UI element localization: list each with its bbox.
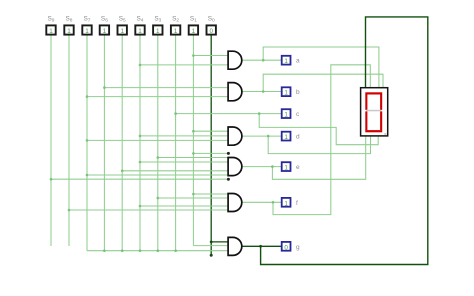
wire S6 to U2 input [104,87,228,89]
junction S4 row e3 [139,161,142,164]
wire S1 to U5 input [193,193,228,195]
wire S2 vertical [175,35,177,251]
junction S6 bottom [103,249,106,252]
wire U5 output to pin f [242,201,281,203]
junction net c branch [258,112,261,115]
svg-text:1: 1 [284,200,288,207]
input pin S7 [82,16,91,36]
wire S7 to U3 input [87,139,228,141]
input pin S1 [189,16,198,36]
junction net f branch [272,201,275,204]
wire net a to display [263,47,379,88]
junction net e branch [271,165,274,168]
input pin S2 [171,16,180,36]
input pin S0 [207,16,216,36]
wire S9 to U4 lower stub [51,178,228,180]
junction S3 row e2 [157,156,160,159]
wire net g to display dark [261,17,428,265]
junction U4 lower stub dot [227,178,230,181]
and-gate U6 [228,237,242,255]
wire S5 to U4 input [122,170,228,172]
junction net g branch dark [259,245,262,248]
output pin a [282,56,300,65]
output pin e [282,162,300,171]
wire S7 to U4 input [87,174,228,176]
input pin S6 [100,16,109,36]
output pin g [282,242,300,251]
junction S1 row d [192,130,195,133]
output pin d [282,132,300,141]
svg-text:e: e [296,164,300,171]
wire S6 vertical [103,35,105,251]
wire S1 to U3 input [193,130,228,132]
junction S3 row f2 [157,197,160,200]
junction S9 row e6 [50,178,53,181]
wire S3 to U5 input [158,197,229,199]
wire S0 vertical dark [210,35,212,256]
input pin S9 [46,16,55,36]
wire S9 vertical [50,35,52,246]
and-gate U4 [228,158,242,176]
wire S3 to U4 input [158,157,229,159]
input pin S3 [153,16,162,36]
wire U4 output to pin e [242,166,281,168]
svg-text:0: 0 [284,244,288,251]
svg-text:1: 1 [284,112,288,119]
wire S2 to pin c [176,113,282,115]
svg-text:g: g [296,244,300,251]
wire S8 vertical [68,35,70,246]
wire net d to display [268,136,370,154]
input pin S4 [135,16,144,36]
output pin b [282,87,300,96]
wire S4 to U1 input [140,64,228,66]
svg-text:1: 1 [284,90,288,97]
seven-segment display U7 [361,88,388,136]
junction S7 row d [86,139,89,142]
junction S2 bottom [174,249,177,252]
junction U4 upper stub dot [227,152,230,155]
wire S1 to U1 input [193,55,228,57]
wire S7 vertical [86,35,88,251]
svg-text:a: a [296,58,300,65]
wire S4 to U3 input [140,135,228,137]
junction S1 row a [192,54,195,57]
wire S5 vertical [121,35,123,251]
wire U6 output to pin g dark [242,245,281,247]
svg-text:1: 1 [67,28,71,35]
wire S4 vertical [139,35,141,251]
svg-text:0: 0 [209,28,213,35]
junction S4 row f3 [139,205,142,208]
svg-text:1: 1 [120,28,124,35]
wire S7 to U6 input [87,250,228,252]
wire S1 vertical [192,35,194,246]
wire U2 output to pin b [242,91,281,93]
wire S0 to U6 input dark [211,241,228,243]
wire S3 vertical [157,35,159,251]
svg-text:1: 1 [138,28,142,35]
wire S4 to U5 input [140,205,228,207]
junction S0 gate branch dark [210,241,213,244]
and-gate U5 [228,194,242,212]
junction S8 row f4 [68,209,71,212]
wire net f to display [273,65,370,215]
svg-text:1: 1 [284,134,288,141]
svg-text:1: 1 [156,28,160,35]
output pin f [282,198,298,207]
input pin S8 [64,16,73,36]
output pin c [282,109,300,118]
input pin S5 [118,16,127,36]
wire net e to display [272,136,365,179]
junction S2 row c [174,112,177,115]
svg-text:b: b [296,89,300,96]
wire S1 to U4 upper stub [193,152,228,154]
junction net a branch [262,59,265,62]
wire U3 output to pin d [242,135,281,137]
junction S4 row d [139,135,142,138]
svg-text:1: 1 [192,28,196,35]
junction S1 row e1 [192,152,195,155]
wire net c to display [259,114,378,145]
svg-text:1: 1 [284,165,288,172]
wire S8 to U5 input [69,209,228,211]
and-gate U2 [228,83,242,101]
svg-text:1: 1 [174,28,178,35]
junction S5 bottom [121,249,124,252]
junction net d branch [267,135,270,138]
svg-text:1: 1 [284,58,288,65]
junction S7 row b [86,95,89,98]
junction S4 row a [139,64,142,67]
svg-text:1: 1 [103,28,107,35]
junction S6 row b [103,86,106,89]
wire U1 output to pin a [242,59,281,61]
svg-text:f: f [296,200,298,207]
junction S0 bottom end dark [210,254,213,257]
wire S1 to U6 input [193,245,228,247]
junction S3 bottom [157,249,160,252]
junction net b branch [262,90,265,93]
junction S5 row e4 [121,170,124,173]
wire net b to display [263,74,383,91]
and-gate U1 [228,51,242,69]
junction S4 bottom [139,249,142,252]
junction S1 row f1 [192,193,195,196]
junction S7 row e5 [86,174,89,177]
wire S4 to U4 input [140,161,228,163]
svg-text:1: 1 [49,28,53,35]
and-gate U3 [228,127,242,145]
svg-text:1: 1 [85,28,89,35]
svg-text:d: d [296,134,300,141]
wire S7 to U2 input [87,96,228,98]
